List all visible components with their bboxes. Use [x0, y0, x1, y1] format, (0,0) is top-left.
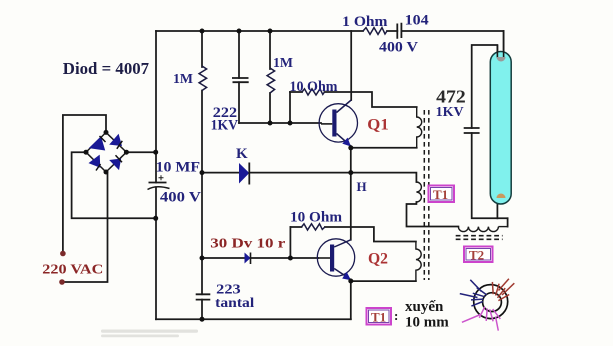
svg-text:K: K: [236, 146, 248, 162]
resistor R5 10 Ohm: [302, 224, 325, 230]
wire bridge top node to AC1: [63, 115, 106, 254]
wire 472 cap top net: [472, 45, 498, 128]
wire 222 branch: [238, 31, 240, 123]
svg-text:Q2: Q2: [368, 250, 388, 267]
wire left bus: [155, 31, 157, 319]
label T1 box: [429, 186, 455, 203]
transistor Q2: [317, 239, 354, 280]
svg-text:1KV: 1KV: [436, 105, 464, 120]
wire bridge bottom node to AC2: [62, 172, 108, 282]
wire bridge left node to bus: [72, 152, 156, 218]
bridge diode D3 lower-left: [89, 155, 101, 171]
svg-text:Q1: Q1: [367, 116, 388, 133]
wire Q2 base: [290, 257, 318, 259]
bridge diode D4 lower-right: [109, 155, 122, 170]
wire 10 Ohm R4 left leg: [289, 92, 291, 123]
inductor T2 winding: [458, 227, 507, 232]
toroid winding blue: [460, 280, 487, 306]
wire winding L1 bottom to emitter: [351, 147, 417, 149]
capacitor C1 222 1KV: [232, 78, 249, 82]
wire tube top drop: [503, 31, 505, 52]
label T1 bottom box: [367, 308, 399, 325]
svg-text:1M: 1M: [273, 56, 293, 71]
wire H node to winding L2: [351, 173, 417, 182]
wire 1M2 branch: [269, 31, 271, 123]
transistor Q1: [319, 100, 357, 147]
svg-text:30 Dv 10 r: 30 Dv 10 r: [210, 236, 285, 251]
terminal AC1: [60, 251, 66, 257]
svg-text:10 Ohm: 10 Ohm: [290, 210, 342, 226]
inductor L2 T1 winding middle: [416, 182, 421, 202]
resistor R4 10 Ohm: [302, 89, 325, 95]
svg-text:xuyến: xuyến: [405, 299, 444, 315]
wire 10 Ohm R4 ends: [290, 92, 417, 107]
wire base node rail y123: [239, 122, 321, 124]
svg-text:10 mm: 10 mm: [405, 315, 449, 331]
capacitor C5 223 tantal: [196, 294, 211, 299]
svg-text:10 MF: 10 MF: [156, 159, 201, 175]
wire Q2 emitter to bottom rail: [350, 281, 352, 319]
diode K: [239, 163, 249, 185]
svg-text:Diod = 4007: Diod = 4007: [63, 59, 149, 78]
transformer T2 core dashed: [456, 236, 503, 240]
wire K diode net: [202, 172, 351, 174]
resistor R3 1 Ohm: [363, 28, 387, 35]
svg-text:1KV: 1KV: [211, 118, 239, 134]
svg-text::: :: [394, 308, 398, 323]
svg-text:220 VAC: 220 VAC: [42, 263, 103, 278]
svg-text:1M: 1M: [173, 72, 193, 87]
wire winding L3 bottom to Q2 emitter: [351, 280, 416, 282]
toroid core drawing: [460, 279, 515, 331]
wire bridge right node to bus: [126, 151, 156, 153]
terminal AC2: [59, 279, 65, 285]
wire winding L2 bottom step to T2: [407, 202, 459, 227]
inductor L3 T1 winding lower: [416, 242, 421, 282]
label T2 box: [464, 247, 493, 263]
wire T2 right leg: [507, 218, 509, 226]
fluorescent tube: [490, 31, 511, 204]
svg-text:tantal: tantal: [215, 295, 254, 310]
toroid winding magenta: [462, 307, 500, 331]
svg-text:400 V: 400 V: [379, 40, 419, 56]
capacitor C4 472 1KV: [464, 128, 480, 133]
capacitor C2 104 400V: [397, 23, 401, 39]
faint watermark smudge: [101, 330, 198, 338]
wire Q1 collector drop: [350, 31, 352, 100]
wire 472 cap bottom net: [472, 133, 508, 218]
wire emitter to H to Q2 collector: [350, 148, 352, 240]
wire 10 Ohm R5 left leg: [289, 227, 291, 258]
toroid winding red: [492, 279, 514, 301]
wire bottom rail: [156, 318, 351, 320]
svg-text:H: H: [357, 179, 367, 194]
capacitor C3 10 MF electrolytic: [148, 183, 170, 190]
resistor R2 1M: [267, 68, 275, 93]
wire tube bottom pin: [496, 198, 498, 218]
svg-text:104: 104: [405, 13, 429, 29]
bridge diode D2 upper-right: [109, 134, 122, 149]
capacitor C3 plus sign: [159, 175, 164, 180]
diode 30Dv: [245, 253, 251, 265]
svg-text:400 V: 400 V: [160, 190, 202, 206]
bridge rectifier diamond: [86, 132, 126, 172]
wire top rail: [156, 30, 504, 32]
wire 30Dv net: [202, 257, 290, 259]
wire 10 Ohm R5 ends: [290, 227, 416, 242]
transformer T1 core dashed: [424, 110, 429, 280]
svg-text:10 Ohm: 10 Ohm: [290, 79, 338, 95]
svg-text:472: 472: [436, 86, 466, 106]
inductor L1 T1 winding upper: [417, 107, 422, 148]
resistor R1 1M: [199, 66, 207, 91]
svg-text:T2: T2: [469, 248, 484, 263]
wire 1M bus x202: [201, 31, 203, 319]
bridge diode D1 upper-left: [89, 136, 106, 151]
svg-text:T1: T1: [371, 310, 386, 325]
svg-text:1 Ohm: 1 Ohm: [342, 14, 387, 30]
svg-text:T1: T1: [433, 187, 448, 202]
